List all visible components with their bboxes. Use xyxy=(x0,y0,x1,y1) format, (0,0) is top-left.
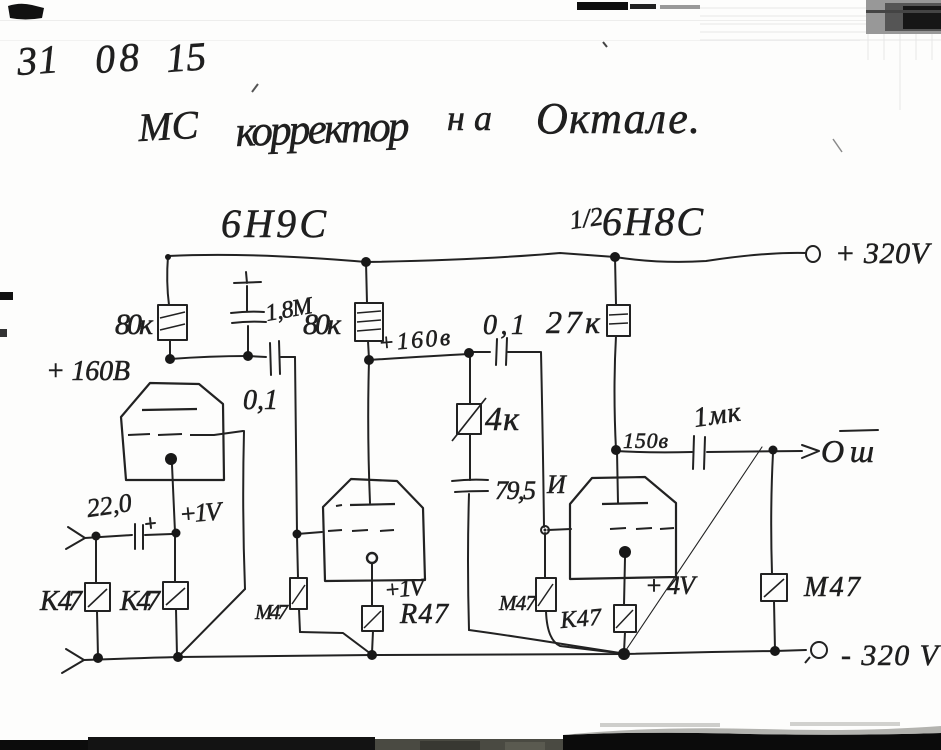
svg-text:К47: К47 xyxy=(558,604,603,634)
svg-text:80к: 80к xyxy=(115,308,154,341)
svg-text:+ 4V: + 4V xyxy=(645,571,698,600)
svg-text:К 47: К 47 xyxy=(119,586,161,617)
svg-text:1/2: 1/2 xyxy=(568,202,605,235)
svg-text:0,1: 0,1 xyxy=(483,310,525,341)
svg-text:150в: 150в xyxy=(623,428,668,453)
svg-text:79,5: 79,5 xyxy=(495,476,536,505)
svg-text:1мк: 1мк xyxy=(692,397,744,434)
svg-text:4к: 4к xyxy=(485,401,520,438)
svg-text:МС: МС xyxy=(136,102,201,150)
svg-text:К 47: К 47 xyxy=(39,586,83,617)
svg-text:27к: 27к xyxy=(546,304,601,340)
svg-text:+ 320V: + 320V xyxy=(835,237,933,270)
svg-text:И: И xyxy=(546,470,567,499)
svg-text:М47: М47 xyxy=(254,600,290,624)
svg-text:М47: М47 xyxy=(803,572,861,603)
svg-text:0,1: 0,1 xyxy=(243,385,278,416)
svg-text:- 320 V: - 320 V xyxy=(841,639,941,672)
svg-text:+1V: +1V xyxy=(178,496,225,529)
svg-text:корректор: корректор xyxy=(235,103,411,156)
svg-text:R47: R47 xyxy=(399,599,449,630)
svg-text:15: 15 xyxy=(164,33,207,81)
svg-text:Октале.: Октале. xyxy=(536,94,700,143)
svg-text:22,0: 22,0 xyxy=(85,488,134,523)
svg-text:М47: М47 xyxy=(498,591,538,615)
svg-text:+ 160В: + 160В xyxy=(46,356,130,387)
